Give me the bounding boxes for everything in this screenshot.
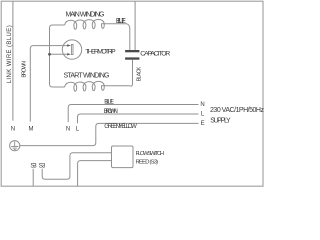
svg-text:N: N	[11, 126, 15, 132]
svg-text:S3: S3	[30, 162, 37, 169]
svg-text:MAIN WINDING: MAIN WINDING	[66, 12, 105, 19]
svg-text:230 VAC/1PH/50Hz: 230 VAC/1PH/50Hz	[210, 107, 265, 114]
svg-text:GREEN/YELLOW: GREEN/YELLOW	[104, 123, 137, 130]
svg-text:SUPPLY: SUPPLY	[210, 118, 231, 125]
svg-text:N: N	[200, 102, 204, 108]
svg-text:START WINDING: START WINDING	[64, 72, 110, 79]
svg-text:BLUE: BLUE	[104, 99, 114, 106]
svg-text:M: M	[29, 126, 34, 132]
svg-text:E: E	[201, 121, 205, 127]
svg-text:BROWN: BROWN	[21, 61, 27, 78]
svg-text:BLACK: BLACK	[136, 66, 142, 81]
svg-text:BROWN: BROWN	[104, 108, 118, 115]
svg-text:LINK WIRE (BLUE): LINK WIRE (BLUE)	[7, 25, 13, 83]
svg-text:THERMOTRIP: THERMOTRIP	[85, 48, 116, 55]
svg-text:CAPACITOR: CAPACITOR	[140, 50, 170, 57]
svg-text:BLUE: BLUE	[116, 18, 126, 25]
svg-text:FLOWSWITCH: FLOWSWITCH	[136, 151, 165, 157]
svg-text:N: N	[66, 126, 70, 132]
svg-text:REED (S3): REED (S3)	[136, 159, 159, 165]
svg-text:L: L	[201, 112, 205, 118]
svg-text:S3: S3	[39, 162, 46, 169]
svg-text:L: L	[76, 126, 80, 132]
